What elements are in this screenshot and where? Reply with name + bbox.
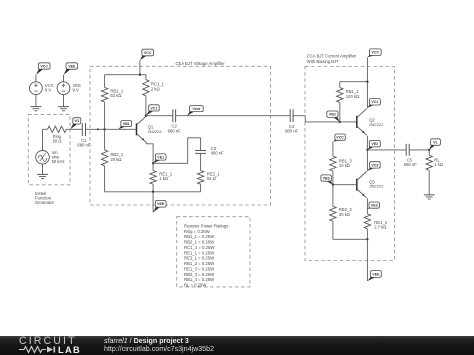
svg-text:VB3: VB3	[323, 176, 330, 180]
junction (bottom rail stage 2)	[366, 238, 368, 240]
svg-text:100 kΩ: 100 kΩ	[346, 94, 359, 99]
label VIN	[52, 150, 65, 164]
wire VCC rail stage 1	[105, 74, 146, 76]
svg-text:Vf1: Vf1	[74, 119, 79, 123]
svg-text:680 nF: 680 nF	[404, 162, 417, 167]
wire VEE source top lead	[63, 75, 65, 82]
wire bottom rail stage 2	[333, 238, 368, 240]
label RB2_1 value	[110, 152, 123, 162]
svg-text:62 kΩ: 62 kΩ	[110, 93, 121, 98]
resistor RB1_1	[101, 75, 107, 130]
svg-text:680 nF: 680 nF	[285, 129, 298, 134]
svg-text:2N2222: 2N2222	[369, 122, 384, 127]
capacitor C2	[173, 109, 176, 122]
node flag VC2	[367, 99, 380, 108]
label Instek Function Generator	[35, 191, 54, 205]
wire VE1 to C3 branch	[153, 138, 201, 164]
svg-text:VE2: VE2	[371, 142, 378, 146]
CircuitLab logo	[19, 337, 83, 354]
label RSIG value	[53, 134, 62, 144]
svg-text:Resistor Power Ratings: Resistor Power Ratings	[184, 224, 228, 229]
svg-text:VC2: VC2	[371, 100, 378, 104]
junction (VCC rail)	[139, 74, 141, 76]
node flag VC3	[367, 162, 380, 171]
resistor RSIG	[43, 126, 71, 132]
resistor RL	[426, 150, 432, 195]
wire VCC rail stage 2	[340, 81, 368, 83]
node flag VCC (stage 1)	[140, 49, 154, 60]
svg-text:VCC: VCC	[144, 51, 152, 55]
npn transistor Q2	[357, 109, 367, 135]
note box Resistor Power Ratings (dashed)	[177, 217, 250, 287]
wire VIN bottom lead	[42, 164, 44, 174]
junction (C1 output node)	[97, 128, 99, 130]
resistor RB2_3	[330, 185, 336, 240]
svg-text:RC1_1 = 0.25W: RC1_1 = 0.25W	[184, 245, 214, 250]
resistor RE1_1	[150, 163, 156, 192]
svg-text:RE2_1 = 0.25W: RE2_1 = 0.25W	[184, 256, 214, 261]
capacitor C4	[290, 109, 293, 122]
wire C3 to RE2_1	[200, 153, 202, 170]
resistor RB2_1	[101, 129, 107, 192]
node flag VEE (stage 2)	[367, 271, 381, 281]
label RE1_1 value	[159, 171, 172, 181]
svg-text:680 nF: 680 nF	[77, 142, 90, 147]
junction (RB1_1/RB2_1 base node)	[103, 128, 105, 130]
svg-text:VEE: VEE	[68, 64, 76, 68]
svg-text:VL: VL	[433, 140, 438, 144]
label RC1_1 value	[151, 82, 165, 92]
svg-text:2N2222: 2N2222	[148, 129, 163, 134]
node flag VOUT	[187, 106, 203, 116]
resistor RB1_3	[330, 142, 336, 185]
wire Q3 base	[333, 184, 357, 186]
label RB1_1 value	[110, 88, 123, 98]
svg-text:10 kΩ: 10 kΩ	[339, 163, 350, 168]
label C5 value	[404, 157, 417, 167]
label RE2_1 value	[207, 171, 220, 181]
junction (VE2 node)	[366, 149, 368, 151]
svg-text:Generator: Generator	[35, 200, 54, 205]
wire to VEE stage 2	[366, 239, 368, 281]
svg-text:20 kΩ: 20 kΩ	[110, 157, 121, 162]
npn transistor Q3	[357, 172, 367, 198]
voltage source VCC 9V	[30, 82, 43, 95]
ground (function generator)	[37, 174, 48, 178]
wire VIN top lead	[42, 129, 44, 150]
wire VE2 to VC3	[366, 150, 368, 171]
wire VEE source bottom lead	[63, 95, 65, 107]
label C1 value	[77, 138, 90, 148]
svg-text:VE1: VE1	[157, 155, 164, 159]
svg-text:1 kΩ: 1 kΩ	[159, 176, 168, 181]
node flag VE2	[367, 140, 380, 150]
svg-text:RL = 0.25W: RL = 0.25W	[184, 283, 206, 288]
label RB2_3 value	[339, 207, 352, 217]
label Q3 2N2222	[369, 179, 384, 188]
svg-text:30 kΩ: 30 kΩ	[339, 212, 350, 217]
node flag VB2	[327, 111, 340, 122]
CEA BJT Voltage Amplifier enclosure (dashed)	[90, 66, 271, 205]
junction (VB3 node)	[332, 184, 334, 186]
label CCA BJT Current Amplifier	[307, 54, 357, 64]
svg-text:VCC: VCC	[40, 64, 48, 68]
svg-text:2N2222: 2N2222	[369, 184, 384, 189]
svg-text:VC1: VC1	[150, 106, 157, 110]
svg-text:RB1_3 = 0.25W: RB1_3 = 0.25W	[184, 277, 214, 282]
node flag VEE (stage 1)	[153, 201, 166, 213]
wire Q1 collector to VC1	[145, 115, 147, 117]
svg-text:1 kΩ: 1 kΩ	[434, 162, 443, 167]
wire VCC source bottom lead	[35, 95, 37, 107]
svg-text:2.7 kΩ: 2.7 kΩ	[374, 225, 386, 230]
node flag VB3	[321, 175, 333, 185]
svg-text:94 Ω: 94 Ω	[207, 176, 216, 181]
CCA BJT Current Amplifier enclosure (dashed)	[305, 67, 395, 261]
wire VC1 to C2	[146, 115, 173, 117]
capacitor C5	[406, 144, 409, 156]
voltage source VEE 9V	[57, 82, 70, 95]
wire VCC to rail stage 2	[366, 57, 368, 81]
node flag VL	[429, 139, 440, 150]
svg-text:VEE: VEE	[372, 272, 380, 276]
junction (VE1 node)	[152, 162, 154, 164]
node flag VCC (stage 2)	[367, 49, 381, 57]
label VEE source	[73, 83, 82, 93]
svg-text:RB1_2 = 0.25W: RB1_2 = 0.25W	[184, 261, 214, 266]
label RB1_2 value	[346, 89, 359, 99]
function generator enclosure (dashed)	[28, 115, 70, 185]
ground (RL)	[424, 195, 435, 199]
svg-text:CCA BJT Current Amplifier: CCA BJT Current Amplifier	[307, 54, 357, 59]
node flag VF1	[70, 118, 81, 130]
svg-text:VCC: VCC	[336, 136, 344, 140]
svg-text:680 nF: 680 nF	[168, 128, 181, 133]
svg-text:VEE: VEE	[157, 202, 165, 206]
resistor RE2_1	[197, 171, 203, 192]
svg-text:2 kΩ: 2 kΩ	[151, 87, 160, 92]
wire emitter rail stage 1	[105, 191, 201, 193]
node flag VCC (bias)	[333, 134, 345, 142]
signal source VIN sine 50kHz	[36, 151, 50, 165]
svg-text:VC3: VC3	[371, 163, 378, 167]
capacitor C3	[195, 151, 206, 154]
node flag VE3	[367, 202, 379, 209]
label Q2 2N2222	[369, 118, 384, 127]
svg-text:VB1: VB1	[123, 122, 130, 126]
label RB1_3 value	[339, 158, 352, 168]
svg-text:RB1_1 = 0.25W: RB1_1 = 0.25W	[184, 234, 214, 239]
capacitor C1	[82, 123, 85, 136]
wire VE2 to C5	[367, 149, 406, 151]
resistor RE1_3	[364, 214, 370, 240]
svg-text:Vout: Vout	[192, 107, 201, 111]
label C2 value	[168, 124, 181, 134]
wire C4 to Q2 base	[293, 116, 357, 122]
ground (VEE source)	[58, 107, 69, 111]
svg-text:680 nF: 680 nF	[211, 150, 224, 155]
wire Q2 collector to rail	[366, 82, 368, 109]
label RE1_3 value	[374, 220, 387, 230]
svg-text:50 Ω: 50 Ω	[53, 138, 62, 143]
junction (VCC rail stage 2)	[366, 81, 368, 83]
label resistor power ratings text	[184, 224, 228, 288]
label Q1 2N2222	[148, 125, 163, 134]
wire C1 to Q1 base	[86, 128, 137, 130]
junction (VL node)	[428, 149, 430, 151]
svg-text:RE1_3 = 0.25W: RE1_3 = 0.25W	[184, 266, 214, 271]
wire VCC flag to rail	[139, 60, 141, 74]
junction (emitter rail)	[152, 191, 154, 193]
npn transistor Q1	[137, 116, 147, 142]
svg-text:RB2_3 = 0.25W: RB2_3 = 0.25W	[184, 272, 214, 277]
wire VCC source top lead	[35, 75, 37, 82]
wire C2 to C4	[176, 115, 291, 117]
node flag VE1	[153, 154, 166, 163]
junction (VC1 node)	[145, 115, 147, 117]
label RL value	[434, 157, 443, 167]
ground (VCC source)	[31, 107, 42, 111]
svg-text:50 kHz: 50 kHz	[52, 159, 65, 164]
resistor RB1_2	[337, 82, 343, 122]
wire Q1 emitter jog	[146, 143, 153, 164]
svg-text:9 V: 9 V	[45, 88, 51, 93]
label CEA BJT Voltage Amplifier	[176, 61, 226, 66]
svg-text:Rsig = 0.25W: Rsig = 0.25W	[184, 229, 210, 234]
label VCC source	[45, 83, 54, 93]
svg-text:RB2_1 = 0.25W: RB2_1 = 0.25W	[184, 240, 214, 245]
wire to VEE stage 1	[152, 192, 154, 213]
node flag VC1	[146, 105, 159, 116]
junction (RB1_2 base node)	[339, 121, 341, 123]
node flag VEE (supply)	[64, 63, 78, 75]
node flag VCC (supply)	[36, 63, 50, 75]
resistor RC1_1	[143, 75, 149, 116]
svg-text:RE1_1 = 0.25W: RE1_1 = 0.25W	[184, 250, 214, 255]
wire Q2 emitter to VE2	[366, 136, 368, 150]
wire Q3 emitter to RE1_3	[366, 198, 368, 214]
svg-text:VB2: VB2	[329, 113, 336, 117]
svg-text:9 V: 9 V	[73, 88, 79, 93]
wire C5 to VL	[409, 149, 429, 151]
svg-text:VE3: VE3	[371, 203, 378, 207]
svg-text:CEA BJT Voltage Amplifier: CEA BJT Voltage Amplifier	[176, 61, 226, 66]
label C3 value	[211, 146, 224, 156]
label C4 value	[285, 124, 298, 134]
svg-text:With Biasing BJT: With Biasing BJT	[307, 59, 339, 64]
wire VF1 to C1	[70, 128, 82, 130]
node flag VB1	[118, 121, 131, 130]
svg-text:VCC: VCC	[372, 51, 380, 55]
